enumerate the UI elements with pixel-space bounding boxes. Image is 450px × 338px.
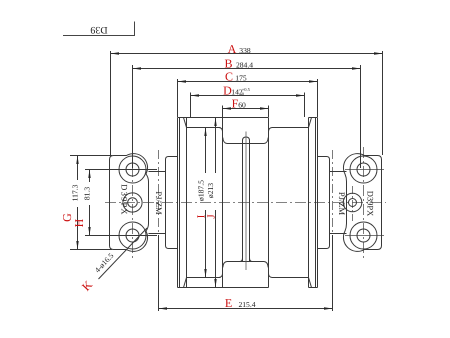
rim chamfer top-right xyxy=(309,118,312,128)
tread top line right xyxy=(272,127,309,129)
svg-text:D39PX: D39PX xyxy=(366,191,376,217)
right top bolt hole xyxy=(357,163,370,176)
left bracket plate xyxy=(110,154,149,252)
svg-text:PJ/ZM: PJ/ZM xyxy=(154,191,164,215)
svg-text:B: B xyxy=(224,57,232,71)
tread-flange fillet bottom-right xyxy=(269,274,273,278)
dimension A xyxy=(111,42,383,155)
svg-text:ø213: ø213 xyxy=(206,183,215,198)
dimension H left xyxy=(72,170,157,236)
title mark D39 top-left xyxy=(63,22,135,36)
svg-text:E: E xyxy=(225,296,232,310)
svg-text:60: 60 xyxy=(238,101,246,110)
svg-text:81.3: 81.3 xyxy=(83,187,92,200)
center flange xyxy=(223,118,269,288)
tread-flange fillet bottom-left xyxy=(219,274,223,278)
left small center hole xyxy=(128,198,138,208)
left rim ring faces xyxy=(178,118,187,288)
left top bolt hole xyxy=(126,163,139,176)
right hole column centerline xyxy=(363,147,365,259)
rim chamfer bottom-right xyxy=(309,278,312,288)
svg-text:J: J xyxy=(206,214,218,219)
svg-text:K: K xyxy=(79,278,95,294)
dimension G left xyxy=(60,156,112,250)
left collar step2 edges xyxy=(149,172,166,234)
svg-text:D39: D39 xyxy=(90,24,107,35)
center slit axis tick xyxy=(245,132,247,271)
svg-text:4-ø16.5: 4-ø16.5 xyxy=(93,251,116,274)
dimension J (diam 213) xyxy=(206,118,218,288)
dimension E bottom xyxy=(159,235,333,311)
right collar boss step1 xyxy=(318,157,330,249)
bottom tangent right xyxy=(309,287,318,289)
axis centerline xyxy=(105,202,386,204)
K leader and label xyxy=(79,228,147,294)
svg-text:ø187.5: ø187.5 xyxy=(197,180,206,201)
hub edge bottom xyxy=(223,262,268,268)
left bottom bolt hole xyxy=(126,229,139,242)
top tangent right xyxy=(309,117,318,119)
dimension D xyxy=(191,84,305,117)
svg-text:PJ/ZM: PJ/ZM xyxy=(337,192,347,216)
center slit xyxy=(240,137,253,262)
right rim ring faces xyxy=(309,118,318,288)
svg-text:A: A xyxy=(228,42,237,56)
left hole column centerline xyxy=(132,147,134,259)
right small center hole xyxy=(349,199,357,207)
right bracket plate xyxy=(343,154,381,252)
svg-text:284.4: 284.4 xyxy=(236,61,253,70)
dimension B xyxy=(133,57,361,168)
svg-text:117.3: 117.3 xyxy=(71,184,80,201)
rim chamfer top-left xyxy=(184,118,187,128)
svg-text:H: H xyxy=(72,218,86,227)
hub edge top xyxy=(223,138,268,144)
svg-text:338: 338 xyxy=(239,46,251,55)
dimension F xyxy=(223,97,269,117)
tread bottom line right xyxy=(272,277,309,279)
tread top line left xyxy=(187,127,221,129)
right small hole centerline xyxy=(352,186,354,221)
tread-flange fillet top-right xyxy=(269,128,273,132)
rim chamfer bottom-left xyxy=(184,278,187,288)
right bolt holes horizontal centerlines xyxy=(345,170,384,236)
right bottom bolt hole xyxy=(357,229,370,242)
svg-text:175: 175 xyxy=(235,74,247,83)
left collar boss step1 xyxy=(166,157,178,249)
right collar step2 edges xyxy=(330,172,347,234)
left mounting face phantom line xyxy=(158,150,160,235)
bottom tangent line left xyxy=(178,287,223,289)
top tangent line (diam 213) left xyxy=(178,117,223,119)
dimension C xyxy=(178,70,318,117)
svg-text:C: C xyxy=(225,70,233,84)
svg-text:D39PX: D39PX xyxy=(120,184,130,216)
dimension I (diam 187.5) xyxy=(196,128,208,278)
tread bottom line left xyxy=(187,277,221,279)
right mounting face phantom line xyxy=(332,150,334,235)
svg-text:215.4: 215.4 xyxy=(238,300,255,309)
tread-flange fillet top-left xyxy=(219,128,223,132)
